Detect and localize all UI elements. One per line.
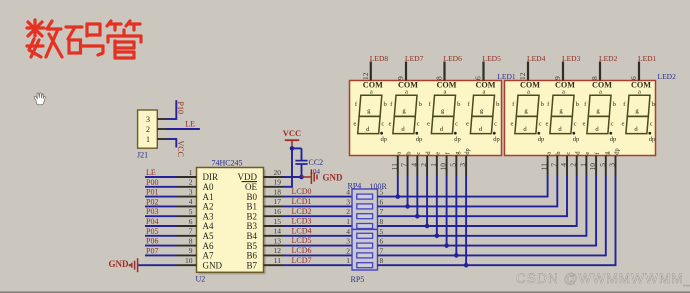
svg-text:VCC: VCC: [176, 141, 185, 157]
svg-text:c: c: [650, 120, 653, 127]
svg-text:GND: GND: [323, 173, 344, 183]
svg-text:c: c: [417, 120, 420, 127]
svg-text:18: 18: [274, 187, 282, 196]
svg-text:c: c: [539, 120, 542, 127]
svg-text:COM: COM: [520, 81, 540, 90]
svg-text:e: e: [389, 120, 392, 127]
svg-text:3: 3: [146, 115, 150, 124]
svg-text:COM: COM: [475, 81, 495, 90]
svg-text:8: 8: [380, 256, 384, 265]
svg-text:5: 5: [448, 163, 457, 167]
svg-text:P10: P10: [176, 102, 185, 114]
svg-text:a: a: [396, 152, 403, 155]
svg-text:11: 11: [390, 163, 399, 170]
svg-text:1: 1: [578, 163, 587, 167]
svg-text:A5: A5: [203, 231, 214, 241]
svg-text:7: 7: [189, 227, 193, 236]
svg-text:dp: dp: [464, 148, 471, 154]
svg-text:a: a: [444, 88, 447, 95]
svg-text:4: 4: [346, 227, 350, 236]
svg-text:GND: GND: [109, 259, 130, 269]
svg-text:dp: dp: [538, 136, 545, 143]
svg-text:B2: B2: [246, 211, 257, 221]
svg-text:P06: P06: [146, 237, 158, 246]
svg-text:3: 3: [189, 187, 193, 196]
svg-text:7: 7: [400, 163, 409, 167]
svg-text:c: c: [455, 120, 458, 127]
svg-text:B6: B6: [246, 251, 257, 261]
svg-text:10: 10: [588, 163, 597, 171]
svg-text:a: a: [545, 152, 552, 155]
svg-text:COM: COM: [631, 81, 651, 90]
svg-text:P01: P01: [146, 188, 158, 197]
svg-text:LCD5: LCD5: [292, 236, 312, 245]
svg-text:b: b: [555, 151, 562, 154]
svg-text:B1: B1: [246, 202, 257, 212]
svg-text:P02: P02: [146, 197, 158, 206]
svg-text:a: a: [483, 88, 486, 95]
svg-text:LED7: LED7: [405, 54, 424, 63]
svg-text:LED2: LED2: [599, 54, 618, 63]
svg-text:6: 6: [189, 217, 193, 226]
svg-text:11: 11: [274, 256, 281, 265]
svg-text:5: 5: [189, 207, 193, 216]
svg-text:3: 3: [608, 163, 617, 167]
svg-text:1: 1: [146, 135, 150, 144]
svg-text:P04: P04: [146, 217, 158, 226]
svg-text:B3: B3: [246, 221, 257, 231]
svg-text:4: 4: [189, 197, 193, 206]
svg-text:J21: J21: [137, 151, 148, 160]
svg-text:CSDN @WWMMWWMM_: CSDN @WWMMWWMM_: [516, 271, 690, 286]
svg-text:104: 104: [310, 168, 321, 176]
svg-text:c: c: [611, 120, 614, 127]
svg-text:100R: 100R: [370, 182, 388, 191]
svg-text:LED5: LED5: [483, 54, 502, 63]
svg-text:COM: COM: [592, 81, 612, 90]
svg-text:12: 12: [274, 246, 282, 255]
svg-text:a: a: [562, 88, 565, 95]
svg-text:c: c: [565, 152, 572, 155]
svg-text:B5: B5: [246, 241, 257, 251]
svg-text:dp: dp: [416, 136, 423, 143]
svg-text:P03: P03: [146, 207, 158, 216]
svg-text:B4: B4: [246, 231, 257, 241]
svg-text:GND: GND: [203, 260, 223, 270]
svg-text:LED8: LED8: [370, 54, 389, 63]
svg-text:5: 5: [380, 188, 384, 197]
svg-text:A2: A2: [203, 202, 214, 212]
svg-text:VCC: VCC: [283, 128, 301, 138]
svg-text:LCD3: LCD3: [292, 217, 312, 226]
svg-text:e: e: [584, 152, 591, 155]
svg-text:P00: P00: [146, 178, 158, 187]
svg-text:e: e: [511, 120, 514, 127]
svg-text:7: 7: [380, 207, 384, 216]
svg-text:2: 2: [419, 163, 428, 167]
svg-text:1: 1: [189, 168, 193, 177]
svg-text:2: 2: [146, 125, 150, 134]
svg-text:dp: dp: [454, 136, 461, 143]
svg-text:6: 6: [380, 197, 384, 206]
svg-text:U2: U2: [196, 275, 206, 284]
svg-text:10: 10: [185, 256, 193, 265]
svg-text:15: 15: [274, 217, 282, 226]
svg-text:COM: COM: [555, 81, 575, 90]
svg-text:e: e: [622, 120, 625, 127]
svg-text:6: 6: [380, 237, 384, 246]
svg-text:RP4: RP4: [348, 181, 362, 190]
svg-text:A0: A0: [203, 182, 214, 192]
svg-text:LED1: LED1: [638, 54, 657, 63]
svg-text:dp: dp: [573, 136, 580, 143]
svg-text:a: a: [599, 88, 602, 95]
svg-text:e: e: [466, 120, 469, 127]
svg-text:12: 12: [361, 72, 370, 80]
svg-text:dp: dp: [610, 136, 617, 143]
svg-text:P05: P05: [146, 227, 158, 236]
svg-text:RP5: RP5: [351, 275, 365, 284]
svg-text:3: 3: [346, 197, 350, 206]
svg-text:6: 6: [629, 76, 638, 80]
svg-text:LCD4: LCD4: [292, 226, 312, 235]
svg-text:7: 7: [549, 163, 558, 167]
svg-text:LE: LE: [146, 168, 156, 177]
svg-text:COM: COM: [436, 81, 456, 90]
svg-text:LCD2: LCD2: [292, 207, 312, 216]
svg-text:LCD7: LCD7: [292, 256, 312, 265]
svg-text:LCD1: LCD1: [292, 197, 312, 206]
svg-text:OE: OE: [245, 182, 257, 192]
svg-text:11: 11: [540, 163, 549, 170]
svg-text:LED3: LED3: [562, 54, 581, 63]
svg-text:COM: COM: [398, 81, 418, 90]
svg-text:a: a: [638, 88, 641, 95]
svg-text:LED6: LED6: [444, 54, 463, 63]
svg-text:LED1: LED1: [497, 72, 516, 81]
svg-text:e: e: [546, 120, 549, 127]
svg-text:COM: COM: [363, 81, 383, 90]
svg-text:c: c: [415, 152, 422, 155]
svg-text:e: e: [353, 120, 356, 127]
svg-text:6: 6: [474, 76, 483, 80]
svg-text:A7: A7: [203, 251, 214, 261]
svg-text:2: 2: [569, 163, 578, 167]
svg-text:VDD: VDD: [238, 172, 258, 182]
svg-text:B7: B7: [246, 260, 257, 270]
svg-text:A1: A1: [203, 192, 214, 202]
svg-text:8: 8: [435, 76, 444, 80]
svg-text:a: a: [527, 88, 530, 95]
svg-text:9: 9: [553, 76, 562, 80]
svg-text:c: c: [381, 120, 384, 127]
svg-text:CC2: CC2: [309, 158, 324, 167]
svg-text:8: 8: [380, 217, 384, 226]
svg-text:a: a: [405, 88, 408, 95]
svg-text:dp: dp: [381, 136, 388, 143]
svg-text:A3: A3: [203, 211, 214, 221]
svg-text:P07: P07: [146, 246, 158, 255]
svg-text:74HC245: 74HC245: [211, 158, 242, 167]
svg-text:c: c: [494, 120, 497, 127]
svg-text:8: 8: [189, 236, 193, 245]
svg-text:dp: dp: [613, 148, 620, 154]
svg-text:e: e: [583, 120, 586, 127]
svg-text:3: 3: [458, 163, 467, 167]
svg-text:c: c: [574, 120, 577, 127]
svg-text:20: 20: [274, 168, 282, 177]
svg-text:LCD0: LCD0: [292, 187, 312, 196]
svg-text:1: 1: [346, 256, 350, 265]
svg-text:dp: dp: [493, 136, 500, 143]
svg-text:9: 9: [396, 76, 405, 80]
svg-text:2: 2: [346, 246, 350, 255]
svg-text:B0: B0: [246, 192, 257, 202]
svg-text:14: 14: [274, 227, 282, 236]
svg-text:1: 1: [429, 163, 438, 167]
svg-text:4: 4: [559, 163, 568, 167]
svg-text:e: e: [435, 152, 442, 155]
svg-text:19: 19: [274, 178, 282, 187]
svg-text:DIR: DIR: [203, 172, 219, 182]
svg-text:LED4: LED4: [527, 54, 546, 63]
svg-text:5: 5: [598, 163, 607, 167]
svg-text:13: 13: [274, 236, 282, 245]
svg-text:LED2: LED2: [658, 72, 677, 81]
svg-text:b: b: [405, 151, 412, 154]
svg-text:LE: LE: [185, 119, 195, 128]
svg-text:10: 10: [439, 163, 448, 171]
svg-text:1: 1: [346, 217, 350, 226]
svg-text:3: 3: [346, 237, 350, 246]
svg-text:16: 16: [274, 207, 282, 216]
svg-text:dp: dp: [649, 136, 656, 143]
svg-text:8: 8: [590, 76, 599, 80]
svg-text:7: 7: [380, 246, 384, 255]
svg-text:12: 12: [518, 72, 527, 80]
svg-text:e: e: [427, 120, 430, 127]
svg-text:17: 17: [274, 197, 282, 206]
svg-text:4: 4: [409, 163, 418, 167]
svg-text:A4: A4: [203, 221, 214, 231]
svg-text:a: a: [370, 88, 373, 95]
svg-text:9: 9: [189, 246, 193, 255]
svg-text:5: 5: [380, 227, 384, 236]
svg-text:LCD6: LCD6: [292, 246, 312, 255]
svg-text:2: 2: [189, 178, 193, 187]
svg-text:A6: A6: [203, 241, 214, 251]
svg-text:2: 2: [346, 207, 350, 216]
